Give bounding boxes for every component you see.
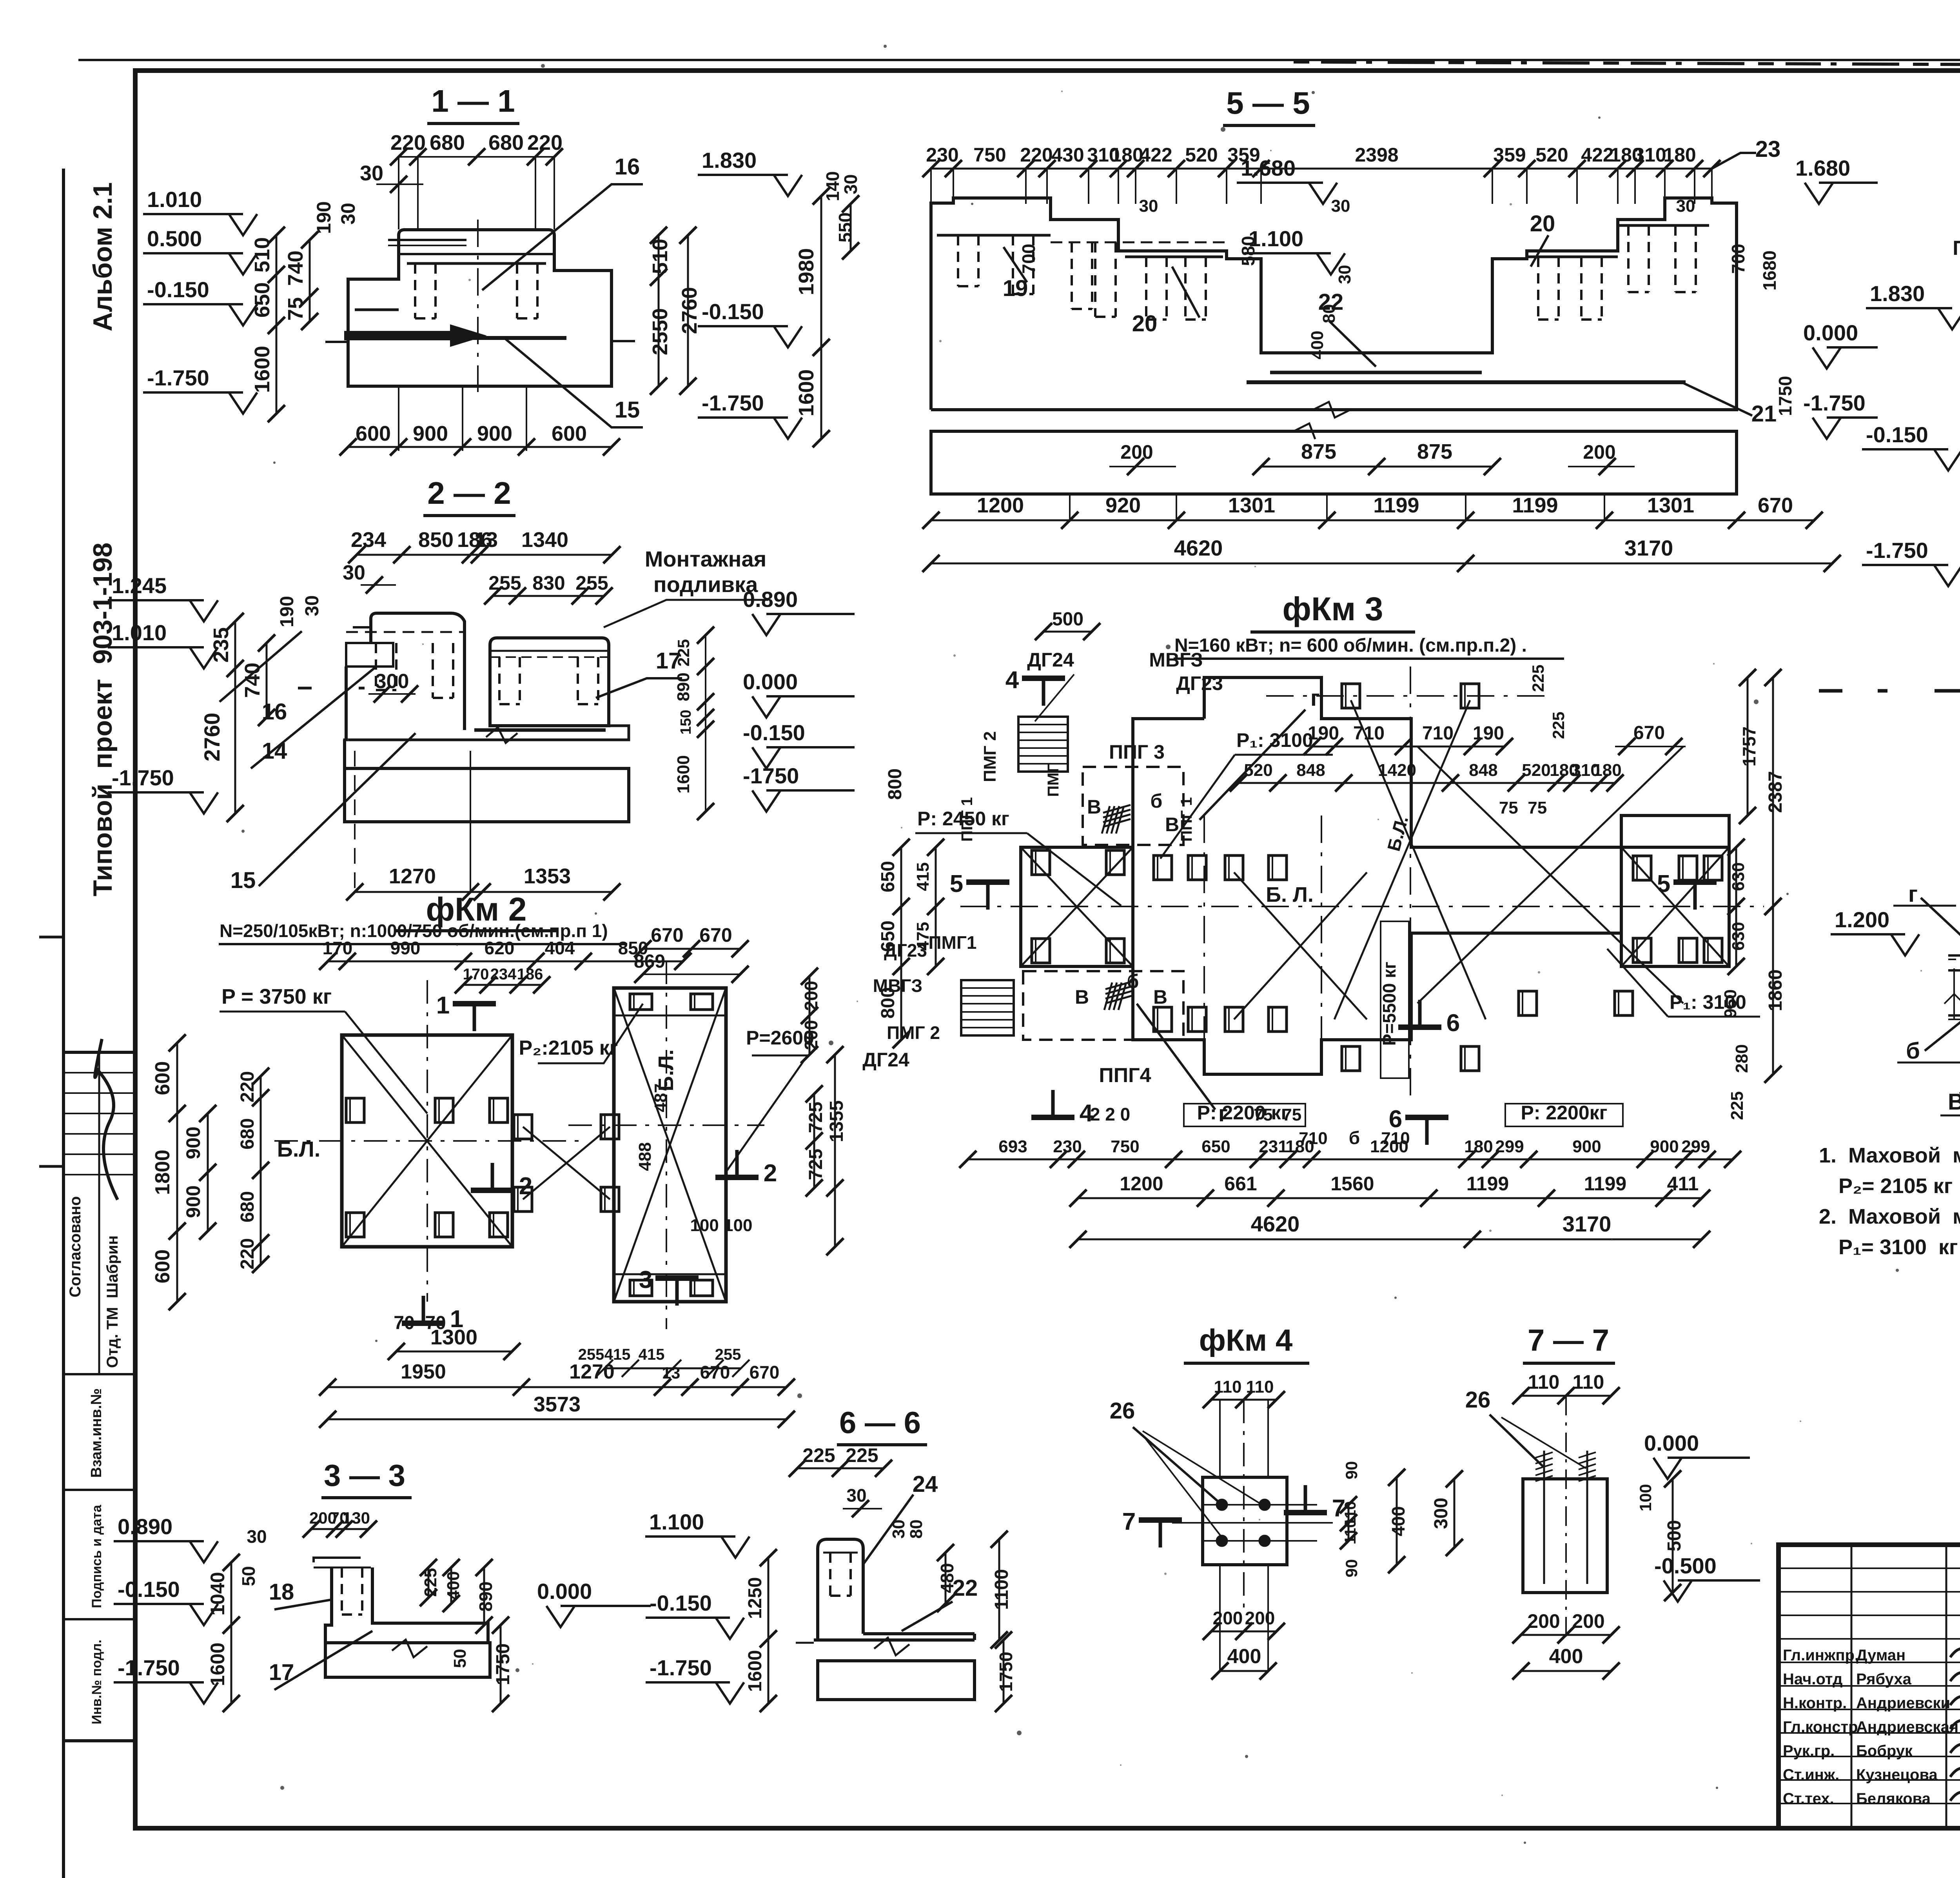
svg-text:2550: 2550 <box>648 308 672 355</box>
FKm3 hatched boxes <box>1018 717 1068 772</box>
svg-text:920: 920 <box>1105 494 1141 517</box>
svg-text:1680: 1680 <box>1759 251 1780 291</box>
svg-text:200: 200 <box>1120 441 1153 463</box>
5-5 leaders <box>1004 247 1027 282</box>
svg-text:422: 422 <box>1581 144 1613 166</box>
svg-text:Белякова: Белякова <box>1856 1790 1931 1807</box>
svg-text:30: 30 <box>337 203 359 225</box>
svg-text:110: 110 <box>1246 1377 1274 1397</box>
svg-text:В: В <box>1948 1089 1960 1115</box>
svg-text:Ст.тех.: Ст.тех. <box>1783 1790 1834 1807</box>
svg-text:299: 299 <box>1495 1137 1524 1156</box>
svg-text:1.010: 1.010 <box>112 620 167 645</box>
svg-text:680: 680 <box>430 131 465 154</box>
svg-text:21: 21 <box>1751 401 1777 427</box>
svg-text:-1.750: -1.750 <box>702 390 764 415</box>
top border speckle <box>1294 62 1960 67</box>
svg-text:15: 15 <box>230 868 256 893</box>
svg-text:110: 110 <box>1342 1519 1359 1545</box>
FKm2 section flags <box>453 1001 496 1006</box>
svg-text:1.830: 1.830 <box>702 148 757 173</box>
svg-text:ППГ 1: ППГ 1 <box>958 797 976 842</box>
svg-text:415: 415 <box>639 1346 665 1363</box>
svg-text:30: 30 <box>343 561 365 584</box>
svg-text:-0.150: -0.150 <box>743 720 805 745</box>
svg-text:1.100: 1.100 <box>649 1509 704 1534</box>
svg-text:400: 400 <box>444 1571 463 1600</box>
svg-text:710: 710 <box>1353 723 1385 744</box>
svg-text:110: 110 <box>1214 1377 1242 1397</box>
svg-text:235: 235 <box>209 627 233 663</box>
svg-text:26: 26 <box>1110 1398 1135 1424</box>
svg-text:0.000: 0.000 <box>537 1579 592 1604</box>
svg-text:фКм 4: фКм 4 <box>1199 1323 1293 1357</box>
svg-text:475: 475 <box>913 922 933 950</box>
svg-text:740: 740 <box>284 251 307 286</box>
svg-text:-1750: -1750 <box>743 763 799 788</box>
svg-text:255: 255 <box>715 1346 741 1363</box>
svg-text:б: б <box>1906 1038 1920 1064</box>
FKm3 leaders <box>1200 710 1305 820</box>
svg-text:1250: 1250 <box>745 1577 766 1619</box>
svg-text:422: 422 <box>1140 144 1172 166</box>
svg-text:ДГ23: ДГ23 <box>1176 672 1223 694</box>
svg-text:1. Маховой момент ротора В: 1. Маховой момент ротора Вентилятора М 1… <box>1819 1144 1960 1167</box>
svg-text:3170: 3170 <box>1624 536 1673 560</box>
5-5 elevations <box>774 175 802 196</box>
FKm3 dims top <box>1044 631 1092 633</box>
svg-text:Кузнецова: Кузнецова <box>1856 1766 1938 1784</box>
svg-text:20: 20 <box>1132 311 1158 336</box>
svg-text:75 75: 75 75 <box>1254 1105 1301 1124</box>
svg-text:400: 400 <box>1549 1645 1583 1668</box>
svg-text:ППГ 1: ППГ 1 <box>1178 797 1195 842</box>
svg-text:Андриевски: Андриевски <box>1856 1695 1950 1712</box>
svg-text:15: 15 <box>615 397 640 423</box>
svg-text:310: 310 <box>1633 144 1666 166</box>
svg-text:1800: 1800 <box>151 1150 174 1195</box>
svg-text:30: 30 <box>840 174 861 194</box>
svg-text:г: г <box>1310 685 1320 711</box>
svg-text:Инв.№ подл.: Инв.№ подл. <box>89 1640 104 1724</box>
svg-text:1560: 1560 <box>1330 1173 1374 1195</box>
svg-text:500: 500 <box>1052 609 1083 630</box>
svg-text:б: б <box>1349 1128 1360 1148</box>
svg-text:900: 900 <box>1572 1137 1601 1156</box>
svg-text:580: 580 <box>1238 236 1258 266</box>
svg-text:N=160 кВт; n= 600 об/мин. (см.: N=160 кВт; n= 600 об/мин. (см.пр.п.2) . <box>1174 635 1527 656</box>
svg-text:1600: 1600 <box>250 346 274 393</box>
svg-text:24: 24 <box>913 1471 938 1497</box>
svg-text:90: 90 <box>1342 1461 1361 1480</box>
svg-text:670: 670 <box>1758 494 1793 517</box>
2-2 base <box>345 726 629 751</box>
svg-text:P: 2200кг: P: 2200кг <box>1521 1102 1608 1124</box>
svg-text:3: 3 <box>639 1266 652 1293</box>
svg-text:50: 50 <box>450 1649 470 1668</box>
svg-text:100: 100 <box>1636 1484 1655 1511</box>
svg-text:650: 650 <box>1201 1137 1230 1156</box>
svg-text:900: 900 <box>413 422 448 445</box>
ground speckle band <box>1819 689 1960 693</box>
svg-text:231: 231 <box>1259 1137 1287 1156</box>
FKm4 bottom dims <box>1211 1631 1276 1633</box>
svg-text:14: 14 <box>262 738 287 764</box>
svg-text:950: 950 <box>1721 989 1740 1018</box>
svg-text:4: 4 <box>1005 667 1019 694</box>
svg-text:В: В <box>1165 814 1179 835</box>
svg-text:520: 520 <box>1185 144 1218 166</box>
svg-text:1300: 1300 <box>430 1326 477 1349</box>
svg-text:1100: 1100 <box>991 1569 1012 1610</box>
svg-text:600: 600 <box>552 422 587 445</box>
svg-text:30: 30 <box>247 1526 267 1547</box>
svg-text:180: 180 <box>1464 1137 1493 1156</box>
svg-text:200: 200 <box>1245 1608 1275 1628</box>
svg-text:510: 510 <box>250 237 274 272</box>
svg-text:710: 710 <box>1422 723 1454 744</box>
svg-text:848: 848 <box>1469 761 1497 780</box>
svg-text:4620: 4620 <box>1174 536 1223 560</box>
svg-text:3573: 3573 <box>534 1393 581 1416</box>
svg-text:220: 220 <box>527 131 563 154</box>
svg-text:230: 230 <box>926 144 958 166</box>
1-1 foundation body <box>348 254 399 342</box>
svg-text:650: 650 <box>878 921 898 952</box>
svg-text:1040: 1040 <box>207 1572 229 1615</box>
svg-text:520: 520 <box>1522 761 1550 780</box>
svg-text:190: 190 <box>1308 723 1339 744</box>
svg-text:ПМГ: ПМГ <box>1045 764 1062 797</box>
svg-text:200: 200 <box>1583 441 1615 463</box>
svg-text:200: 200 <box>801 1020 821 1050</box>
svg-text:фКм 3: фКм 3 <box>1283 590 1383 627</box>
svg-text:1600: 1600 <box>1956 510 1960 554</box>
svg-text:Бобрук: Бобрук <box>1856 1742 1913 1760</box>
FKm3 right block with X <box>1621 847 1729 966</box>
5-5 body outline <box>931 198 1377 410</box>
svg-text:710: 710 <box>1299 1129 1327 1148</box>
svg-text:255: 255 <box>575 572 608 594</box>
svg-text:890: 890 <box>674 672 693 701</box>
svg-text:0.890: 0.890 <box>118 1514 172 1539</box>
2-2 left pedestal <box>371 613 465 643</box>
svg-text:670: 670 <box>1633 723 1665 743</box>
svg-text:220: 220 <box>1020 144 1053 166</box>
svg-text:26: 26 <box>1465 1387 1491 1413</box>
svg-text:1750: 1750 <box>493 1644 514 1685</box>
svg-text:234: 234 <box>490 966 517 983</box>
svg-text:400: 400 <box>1227 1645 1261 1668</box>
svg-text:подливка: подливка <box>653 572 758 597</box>
svg-text:280: 280 <box>1732 1044 1751 1073</box>
svg-text:900: 900 <box>1650 1137 1679 1156</box>
svg-text:3 — 3: 3 — 3 <box>324 1458 405 1493</box>
svg-text:0.000: 0.000 <box>1644 1431 1699 1455</box>
svg-text:1270: 1270 <box>389 865 436 888</box>
svg-text:18: 18 <box>269 1579 294 1605</box>
svg-text:1355: 1355 <box>826 1101 847 1142</box>
svg-text:16: 16 <box>262 699 287 725</box>
svg-text:Альбом 2.1: Альбом 2.1 <box>88 182 118 331</box>
svg-text:3170: 3170 <box>1563 1211 1612 1236</box>
svg-text:Согласовано: Согласовано <box>67 1196 84 1297</box>
FKm3 dashed gear boxes <box>1083 767 1183 845</box>
svg-text:900: 900 <box>182 1126 204 1159</box>
svg-text:110: 110 <box>1528 1371 1560 1393</box>
svg-text:2: 2 <box>764 1160 777 1187</box>
svg-text:1420: 1420 <box>1378 761 1416 780</box>
svg-text:1199: 1199 <box>1584 1173 1626 1195</box>
FKm2 left dims <box>176 1043 178 1302</box>
svg-text:50: 50 <box>238 1566 259 1586</box>
svg-text:ППГ4: ППГ4 <box>1099 1064 1151 1087</box>
svg-text:1: 1 <box>436 992 450 1019</box>
svg-text:17: 17 <box>656 648 681 674</box>
svg-text:225: 225 <box>802 1444 835 1466</box>
svg-text:1980: 1980 <box>1956 384 1960 427</box>
svg-text:90: 90 <box>1342 1559 1361 1578</box>
svg-text:г: г <box>1908 881 1918 907</box>
svg-text:1301: 1301 <box>1647 494 1694 517</box>
svg-text:190: 190 <box>277 596 298 627</box>
svg-text:75: 75 <box>284 297 307 321</box>
svg-text:750: 750 <box>1111 1137 1139 1156</box>
svg-text:180: 180 <box>1663 144 1696 166</box>
svg-text:1199: 1199 <box>1512 494 1558 517</box>
svg-text:1200: 1200 <box>977 494 1024 517</box>
svg-text:1.680: 1.680 <box>1241 156 1296 180</box>
svg-text:1.830: 1.830 <box>1870 281 1925 306</box>
svg-text:200: 200 <box>1527 1610 1560 1632</box>
svg-text:670: 670 <box>700 1362 730 1382</box>
svg-text:1750: 1750 <box>996 1652 1016 1692</box>
svg-text:2 2 0: 2 2 0 <box>1090 1104 1130 1124</box>
detail 1 drawing <box>1891 934 1919 955</box>
3-3 shape <box>314 1558 361 1562</box>
svg-text:1199: 1199 <box>1373 494 1419 517</box>
svg-text:ППГ 4: ППГ 4 <box>1953 237 1960 260</box>
svg-text:Б.Л.: Б.Л. <box>277 1137 321 1161</box>
svg-text:190: 190 <box>313 201 335 234</box>
svg-text:ДГ24: ДГ24 <box>1027 649 1074 671</box>
FKm3 big X crosses <box>1234 872 1367 1019</box>
svg-text:404: 404 <box>545 938 575 958</box>
svg-text:30: 30 <box>1335 265 1354 284</box>
svg-text:620: 620 <box>485 938 515 958</box>
svg-text:Н.контр.: Н.контр. <box>1783 1695 1847 1712</box>
svg-text:0.000: 0.000 <box>743 669 798 694</box>
svg-text:-0.150: -0.150 <box>702 299 764 324</box>
svg-text:430: 430 <box>1051 144 1084 166</box>
svg-text:13: 13 <box>474 528 498 552</box>
svg-text:1340: 1340 <box>521 528 568 552</box>
svg-text:7: 7 <box>1122 1508 1136 1535</box>
svg-text:Отд. ТМ Шабрин: Отд. ТМ Шабрин <box>104 1235 121 1368</box>
svg-text:2: 2 <box>519 1173 532 1200</box>
svg-text:P₂:2105 кг: P₂:2105 кг <box>519 1037 618 1059</box>
svg-text:500: 500 <box>1664 1520 1685 1551</box>
svg-text:1 — 1: 1 — 1 <box>431 84 515 118</box>
svg-text:225: 225 <box>1728 1091 1747 1120</box>
svg-text:670: 670 <box>750 1362 780 1382</box>
svg-text:-0.150: -0.150 <box>147 277 209 302</box>
svg-text:В: В <box>1075 986 1089 1008</box>
svg-text:0.000: 0.000 <box>1803 320 1858 345</box>
svg-text:225: 225 <box>1529 665 1547 692</box>
svg-text:1600: 1600 <box>674 755 693 794</box>
svg-text:1757: 1757 <box>1739 726 1759 766</box>
svg-text:255: 255 <box>488 572 521 594</box>
svg-text:ДГ24: ДГ24 <box>862 1049 909 1071</box>
svg-text:710: 710 <box>1381 1129 1410 1148</box>
svg-text:848: 848 <box>1296 761 1325 780</box>
svg-text:480: 480 <box>937 1563 957 1593</box>
svg-text:200: 200 <box>1572 1610 1604 1632</box>
svg-text:1.245: 1.245 <box>112 573 167 598</box>
svg-text:200: 200 <box>801 981 821 1011</box>
svg-text:P₁= 3100 кг Вес ходовой ча: P₁= 3100 кг Вес ходовой части дымососа .… <box>1838 1235 1960 1259</box>
svg-text:680: 680 <box>237 1191 258 1222</box>
svg-text:875: 875 <box>1417 440 1452 463</box>
svg-text:20: 20 <box>1530 211 1555 236</box>
svg-text:400: 400 <box>1308 331 1327 359</box>
svg-text:680: 680 <box>488 131 524 154</box>
svg-text:Рябуха: Рябуха <box>1856 1671 1912 1688</box>
svg-text:30: 30 <box>302 595 323 616</box>
svg-text:359: 359 <box>1493 144 1526 166</box>
svg-text:630: 630 <box>1729 922 1748 950</box>
svg-text:2398: 2398 <box>1355 144 1398 166</box>
svg-text:100 100: 100 100 <box>690 1216 752 1235</box>
svg-text:800: 800 <box>878 987 898 1019</box>
svg-text:650: 650 <box>878 861 898 892</box>
svg-text:30: 30 <box>1139 196 1158 216</box>
svg-text:1950: 1950 <box>401 1360 446 1383</box>
svg-text:299: 299 <box>1681 1137 1710 1156</box>
svg-text:4620: 4620 <box>1251 1211 1300 1236</box>
svg-text:520: 520 <box>1535 144 1568 166</box>
svg-text:400: 400 <box>1388 1506 1408 1537</box>
svg-text:110: 110 <box>1573 1371 1604 1393</box>
main title block <box>1779 1545 1960 1828</box>
svg-text:Рук.гр.: Рук.гр. <box>1783 1742 1835 1760</box>
svg-text:1600: 1600 <box>745 1650 766 1692</box>
svg-text:900: 900 <box>182 1185 204 1218</box>
svg-text:ППГ 3: ППГ 3 <box>1109 741 1165 763</box>
scan noise speckles <box>541 64 545 68</box>
svg-text:1750: 1750 <box>1775 376 1795 416</box>
5-5 lower footing <box>931 431 1737 494</box>
svg-text:1980: 1980 <box>795 248 818 295</box>
svg-text:6: 6 <box>1446 1010 1460 1037</box>
svg-text:750: 750 <box>973 144 1006 166</box>
svg-text:16: 16 <box>615 154 640 180</box>
svg-text:1600: 1600 <box>795 369 818 416</box>
svg-text:600: 600 <box>151 1250 174 1284</box>
svg-text:510: 510 <box>648 239 672 274</box>
svg-text:Думан: Думан <box>1856 1647 1906 1664</box>
5-5 top dim chain <box>931 168 1712 170</box>
svg-text:Нач.отд: Нач.отд <box>1783 1671 1842 1688</box>
svg-text:1199: 1199 <box>1466 1173 1509 1195</box>
svg-text:693: 693 <box>998 1137 1027 1156</box>
svg-text:22: 22 <box>1318 289 1344 315</box>
svg-text:300: 300 <box>375 670 409 693</box>
svg-text:850: 850 <box>418 528 454 552</box>
svg-text:Гл.констр: Гл.констр <box>1783 1718 1858 1736</box>
svg-text:186: 186 <box>517 966 543 983</box>
svg-text:300: 300 <box>1431 1498 1452 1529</box>
svg-text:1.010: 1.010 <box>147 187 202 212</box>
svg-text:5 — 5: 5 — 5 <box>1226 85 1310 120</box>
svg-text:600: 600 <box>151 1061 174 1095</box>
svg-text:670: 670 <box>651 924 683 946</box>
FKm2 right dims <box>809 976 811 1055</box>
svg-text:725: 725 <box>806 1149 826 1180</box>
svg-text:415: 415 <box>913 862 933 891</box>
svg-text:P=5500 кг: P=5500 кг <box>1379 962 1399 1046</box>
svg-text:Андриевская: Андриевская <box>1856 1718 1958 1736</box>
left side stamp table <box>64 1052 135 1741</box>
svg-text:30: 30 <box>889 1520 908 1539</box>
svg-text:990: 990 <box>390 938 421 958</box>
svg-text:В: В <box>1153 986 1167 1008</box>
svg-text:30: 30 <box>360 162 383 185</box>
sheet border and frame <box>62 169 65 1878</box>
svg-text:Монтажная: Монтажная <box>645 547 767 571</box>
svg-text:900: 900 <box>477 422 512 445</box>
svg-text:1.200: 1.200 <box>1835 907 1889 932</box>
svg-text:2. Маховой момент ротора д: 2. Маховой момент ротора дымососа М = 53… <box>1819 1205 1960 1228</box>
svg-text:1.680: 1.680 <box>1795 156 1850 180</box>
svg-text:1600: 1600 <box>207 1642 229 1686</box>
svg-text:2 — 2: 2 — 2 <box>427 476 511 510</box>
svg-text:670: 670 <box>699 924 732 946</box>
svg-text:220: 220 <box>237 1238 258 1270</box>
FKm3 section flags <box>1022 676 1065 681</box>
svg-text:В: В <box>1087 796 1101 818</box>
svg-text:13: 13 <box>662 1364 681 1382</box>
FKm2 pads left <box>346 1098 364 1122</box>
FKm2 left plate diagonals <box>342 1035 512 1247</box>
svg-text:б: б <box>1127 970 1139 992</box>
FKm2 X links <box>523 1127 610 1199</box>
svg-text:75 75: 75 75 <box>1499 798 1547 817</box>
svg-text:150: 150 <box>678 710 694 734</box>
svg-text:487: 487 <box>651 1083 670 1112</box>
svg-text:130: 130 <box>343 1509 370 1527</box>
svg-text:230: 230 <box>1053 1137 1082 1156</box>
svg-text:-0.150: -0.150 <box>650 1591 712 1615</box>
svg-text:30: 30 <box>846 1485 866 1506</box>
svg-text:23: 23 <box>1755 136 1781 162</box>
FKm3 center lines <box>960 906 1764 907</box>
svg-text:890: 890 <box>475 1582 496 1612</box>
svg-text:2760: 2760 <box>200 713 224 762</box>
svg-text:ПМГ 2: ПМГ 2 <box>887 1023 940 1043</box>
FKm3 dims right <box>1747 677 1749 815</box>
svg-text:Подпись и дата: Подпись и дата <box>89 1504 104 1608</box>
svg-text:7 — 7: 7 — 7 <box>1528 1323 1609 1357</box>
svg-text:200: 200 <box>1213 1608 1243 1628</box>
svg-text:255: 255 <box>578 1346 604 1363</box>
svg-text:875: 875 <box>1301 440 1336 463</box>
svg-text:2387: 2387 <box>1765 771 1786 813</box>
5-5 bottom dims <box>1261 466 1492 468</box>
svg-text:МВГЗ: МВГЗ <box>1149 649 1203 671</box>
svg-text:17: 17 <box>269 1660 294 1685</box>
